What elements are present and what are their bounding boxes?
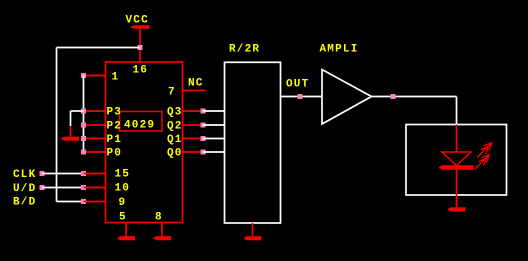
svg-text:NC: NC (188, 78, 204, 90)
svg-text:CLK: CLK (13, 169, 36, 181)
pin stub Q0 (183, 151, 204, 153)
ground symbol LED (448, 207, 466, 211)
svg-text:VCC: VCC (126, 15, 149, 27)
wire Q1 to R2R (203, 138, 225, 140)
svg-text:Q2: Q2 (167, 121, 183, 133)
svg-text:P3: P3 (107, 107, 123, 119)
node U/D (40, 185, 45, 190)
node Q3 (201, 109, 206, 114)
pin stub Q3 (183, 110, 204, 112)
wire R2R out to amp (281, 96, 323, 98)
wire VCC to pin 16 (139, 29, 141, 63)
node U/D pin junction (81, 185, 86, 190)
svg-text:OUT: OUT (286, 79, 309, 91)
pin stub P1 (84, 138, 106, 140)
node B/D pin junction (81, 199, 86, 204)
LED light arrow 2 (475, 155, 490, 170)
svg-text:1: 1 (112, 72, 120, 84)
LED D1 triangle (442, 152, 471, 166)
svg-text:Q0: Q0 (167, 148, 183, 160)
svg-text:P2: P2 (107, 121, 123, 133)
wire ground jog vertical (70, 111, 72, 126)
wire left bus vertical (83, 76, 85, 153)
node Q0 (201, 150, 206, 155)
node P2 (81, 123, 86, 128)
svg-text:Q3: Q3 (167, 107, 183, 119)
wire CLK (42, 173, 84, 175)
wire to B/D pin (57, 201, 84, 203)
node P1 (81, 136, 86, 141)
svg-text:4029: 4029 (124, 120, 155, 132)
pin stub 8 (161, 223, 163, 237)
node pin1 (81, 73, 86, 78)
svg-text:Q1: Q1 (167, 134, 183, 146)
node CLK (40, 171, 45, 176)
svg-text:AMPLI: AMPLI (320, 44, 359, 56)
LED cathode wire to ground (456, 166, 458, 208)
svg-text:P0: P0 (107, 148, 123, 160)
node amp output (391, 94, 396, 99)
node Q2 (201, 123, 206, 128)
node CLK pin junction (81, 171, 86, 176)
ground stub R2R (252, 223, 254, 236)
node P3 (81, 109, 86, 114)
svg-text:U/D: U/D (13, 183, 36, 195)
pin stub 9 (84, 201, 106, 203)
node VCC junction (138, 45, 143, 50)
svg-text:15: 15 (115, 169, 131, 181)
svg-text:8: 8 (155, 212, 163, 224)
pin stub 1 (84, 75, 106, 77)
pin stub P0 (84, 151, 106, 153)
wire Q2 to R2R (203, 124, 225, 126)
pin stub 7 NC (183, 90, 206, 92)
IC U1 4029 body (106, 62, 183, 223)
node Q1 (201, 136, 206, 141)
op-amp AMPLI triangle (322, 70, 372, 125)
power VCC bar symbol (130, 25, 150, 29)
pin stub P2 (84, 124, 106, 126)
wire U/D (42, 187, 84, 189)
svg-text:R/2R: R/2R (229, 44, 260, 56)
ground stub at P inputs (70, 126, 72, 137)
node P0 (81, 150, 86, 155)
LED light arrow 1 (477, 143, 492, 158)
wire VCC junction to left (57, 47, 141, 49)
wire Q3 to R2R (203, 110, 225, 112)
pin stub P3 (84, 110, 106, 112)
wire down to LED box (456, 97, 458, 125)
LED enclosure box (406, 125, 507, 196)
R/2R ladder box (225, 62, 281, 223)
pin stub 15 (84, 173, 106, 175)
wire Q0 to R2R (203, 151, 225, 153)
ground symbol pin 5 (117, 236, 135, 240)
pin stub 10 (84, 187, 106, 189)
svg-text:B/D: B/D (13, 197, 36, 209)
svg-text:5: 5 (119, 212, 127, 224)
svg-text:10: 10 (115, 183, 131, 195)
pin stub Q2 (183, 124, 204, 126)
svg-text:7: 7 (168, 87, 176, 99)
ground symbol R2R (244, 236, 262, 240)
svg-text:P1: P1 (107, 134, 123, 146)
value box 4029 (120, 112, 163, 132)
LED anode wire (456, 125, 458, 153)
pin stub 5 (125, 223, 127, 237)
ground symbol at P inputs (61, 137, 79, 141)
ground symbol pin 8 (153, 236, 171, 240)
wire left vertical down to B/D row (56, 48, 58, 202)
LED cathode bar (439, 165, 474, 169)
svg-text:9: 9 (119, 197, 127, 209)
node OUT (298, 94, 303, 99)
wire P3 to ground jog horizontal (71, 110, 84, 112)
wire amp output (372, 96, 457, 98)
svg-text:16: 16 (133, 65, 149, 77)
pin stub Q1 (183, 138, 204, 140)
